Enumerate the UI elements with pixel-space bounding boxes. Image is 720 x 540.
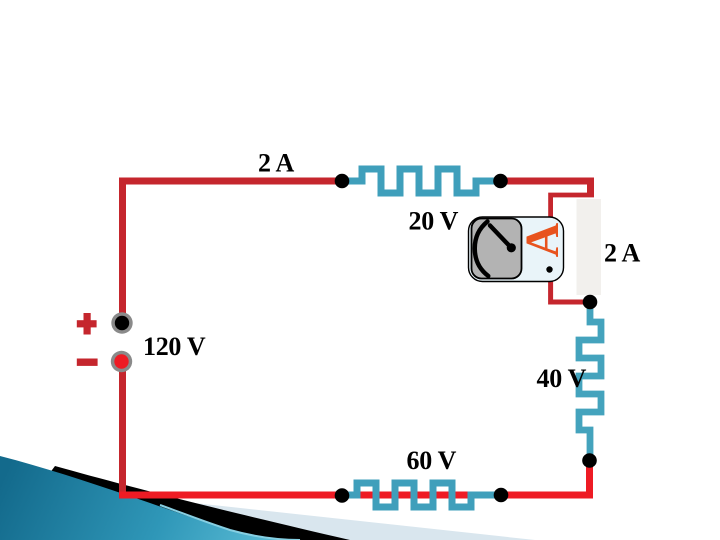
battery - symbol <box>77 359 98 366</box>
battery terminal + (black) <box>111 312 132 333</box>
wire: left vertical upper (battery + side) <box>123 181 346 325</box>
svg-text:60 V: 60 V <box>407 446 457 475</box>
ammeter U1 body <box>469 217 564 282</box>
node: bottom right of R3 <box>494 488 509 503</box>
node: top of R2 <box>583 295 598 310</box>
ammeter U1 needle pivot <box>507 243 516 252</box>
wire: bottom loop (bright red) <box>119 458 590 495</box>
slide corner decoration: pale wedge <box>130 496 535 540</box>
resistor R3 (bottom, 60 V) <box>345 483 498 507</box>
resistor R2 (right, 40 V) <box>579 305 601 458</box>
node: top left of R1 <box>335 174 350 189</box>
ammeter U1 dial arc <box>475 222 489 277</box>
wire: jog into ammeter <box>551 195 594 225</box>
white band behind right 2A label <box>577 199 602 295</box>
wire: top right to corner <box>498 181 591 197</box>
node: top right of R1 <box>493 174 508 189</box>
svg-text:A: A <box>516 222 569 257</box>
ammeter U1 needle <box>490 226 511 248</box>
svg-text:40 V: 40 V <box>537 364 587 393</box>
slide corner decoration: teal edge highlight <box>160 505 300 540</box>
resistor R1 (top, 20 V) <box>345 169 498 193</box>
slide corner decoration: black wedge <box>0 466 350 540</box>
battery + symbol <box>77 313 97 335</box>
wire: left vertical lower (battery - side) <box>119 358 126 494</box>
svg-text:20 V: 20 V <box>409 207 459 236</box>
node: bottom of R2 <box>582 453 597 468</box>
battery terminal - (red) <box>111 351 132 372</box>
svg-text:2 A: 2 A <box>258 148 294 177</box>
slide corner decoration: teal gradient wedge <box>0 456 302 540</box>
node: bottom left of R3 <box>335 488 350 503</box>
wire: ammeter to node below <box>551 272 590 302</box>
ammeter U1 dial panel <box>472 219 522 279</box>
ammeter U1 terminal dot <box>546 266 552 272</box>
svg-text:120 V: 120 V <box>143 332 206 361</box>
svg-text:2 A: 2 A <box>604 238 640 267</box>
